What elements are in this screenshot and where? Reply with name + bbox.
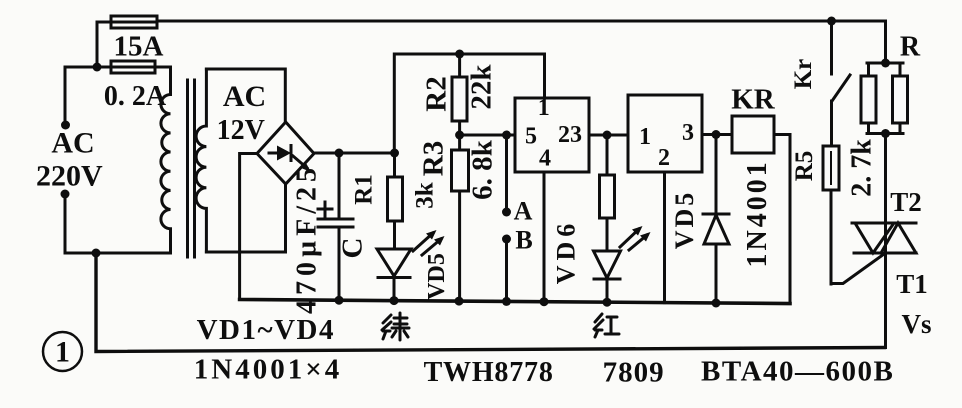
node junction to bottom rail <box>92 249 101 258</box>
svg-text:R3: R3 <box>418 141 450 176</box>
svg-text:12V: 12V <box>217 115 265 146</box>
fuse F2 0.2A <box>111 61 155 73</box>
svg-text:AC: AC <box>51 127 94 160</box>
wire DC+ up to control row <box>394 54 544 153</box>
resistor R parallel pair <box>861 63 908 134</box>
node junction fuses <box>93 63 102 72</box>
node VD6 bottom <box>603 298 612 307</box>
svg-text:BTA40—600B: BTA40—600B <box>701 355 894 387</box>
wire pin5 of U1 <box>460 134 515 137</box>
node C bottom <box>335 296 344 305</box>
LED VD6 arrows <box>620 226 651 250</box>
LED VD5 arrows <box>413 230 445 255</box>
svg-text:R: R <box>900 32 921 63</box>
svg-text:1N4001×4: 1N4001×4 <box>194 353 342 385</box>
svg-text:VD6: VD6 <box>552 219 581 285</box>
node VD5 diode bottom <box>712 299 721 308</box>
triac BTA40 <box>852 134 916 348</box>
svg-text:Kr: Kr <box>790 59 817 90</box>
wire pin2 of U2 <box>663 172 666 303</box>
chinese char red (hong) drawn strokes <box>594 314 619 337</box>
IC U2 7809 box <box>628 95 702 172</box>
wire bridge left vertex drop <box>240 154 257 300</box>
svg-text:7809: 7809 <box>603 356 665 388</box>
wire secondary top edge <box>206 69 285 122</box>
svg-text:KR: KR <box>731 84 776 116</box>
svg-text:R2: R2 <box>421 76 453 111</box>
svg-text:Vs: Vs <box>901 309 931 339</box>
svg-text:4: 4 <box>539 145 551 171</box>
wire relay right to ground rail <box>774 135 790 304</box>
LED VD6 red <box>594 251 621 302</box>
fuse F1 15A <box>111 16 157 28</box>
resistor R3 <box>452 136 469 301</box>
svg-text:1: 1 <box>538 95 550 121</box>
wire secondary bottom edge <box>206 251 285 254</box>
node R2 top <box>455 50 464 59</box>
svg-text:VD5: VD5 <box>424 253 450 300</box>
relay coil KR <box>732 116 774 153</box>
node pin4 bottom <box>540 297 549 306</box>
resistor R1 <box>388 153 403 249</box>
svg-text:C: C <box>337 238 369 259</box>
resistor R5 <box>823 146 839 284</box>
node VD6 top <box>603 131 612 140</box>
node C top <box>335 149 344 158</box>
node A <box>502 208 511 217</box>
node R1 top <box>390 149 399 158</box>
svg-text:22k: 22k <box>466 64 498 110</box>
svg-text:T2: T2 <box>890 187 922 217</box>
node R bottom <box>881 129 890 138</box>
wire triac gate <box>831 254 884 284</box>
resistor for VD6 <box>600 135 615 251</box>
svg-text:15A: 15A <box>114 31 164 63</box>
node A/B branch <box>502 131 511 140</box>
resistor R2 <box>452 54 467 136</box>
wire ground rail <box>240 300 790 304</box>
wire 0.2A left lead to AC terminal <box>65 67 111 125</box>
wire 15A left lead <box>97 22 111 67</box>
wire probe B <box>505 239 508 301</box>
wire pin3 of U2 to relay <box>702 133 732 136</box>
wire top rail <box>157 21 886 63</box>
node R top <box>881 59 890 68</box>
node Kr branch <box>827 17 836 26</box>
wire pin2/3 of U1 to U2 <box>589 134 628 137</box>
IC U1 TWH8778 box <box>515 98 589 172</box>
svg-text:VD5: VD5 <box>670 190 699 250</box>
svg-text:1N4001: 1N4001 <box>742 159 773 267</box>
LED VD5 green <box>377 249 411 301</box>
svg-text:3k: 3k <box>412 182 439 209</box>
node VD5 green bottom <box>390 296 399 305</box>
svg-text:5: 5 <box>525 124 537 150</box>
wire DC+ rail <box>314 152 395 155</box>
capacitor C 470uF <box>318 153 353 300</box>
wire probe A <box>505 135 508 212</box>
svg-text:6. 8k: 6. 8k <box>467 139 499 200</box>
svg-text:B: B <box>515 226 532 255</box>
svg-text:1: 1 <box>639 124 651 150</box>
wire 0.2A right lead <box>155 66 171 69</box>
wire AC bottom lead <box>65 194 170 253</box>
node R3 bottom <box>455 297 464 306</box>
svg-text:T1: T1 <box>896 269 928 299</box>
node AC terminal top <box>61 121 70 130</box>
transformer secondary winding <box>196 69 206 252</box>
svg-text:23: 23 <box>558 122 582 148</box>
svg-text:R5: R5 <box>791 151 818 182</box>
svg-text:2: 2 <box>658 145 670 171</box>
svg-text:TWH8778: TWH8778 <box>424 357 554 388</box>
diode VD5 1N4001 <box>703 135 729 304</box>
node VD5 diode top <box>712 130 721 139</box>
svg-text:VD1~VD4: VD1~VD4 <box>197 314 335 346</box>
svg-text:R1: R1 <box>351 174 378 205</box>
svg-text:220V: 220V <box>36 160 103 193</box>
svg-text:3: 3 <box>682 120 694 146</box>
wire pin4 of U1 <box>543 172 546 302</box>
svg-text:1: 1 <box>55 336 70 369</box>
bridge inner diode symbol <box>269 146 311 173</box>
transformer core <box>188 80 195 257</box>
bridge rectifier VD1-VD4 diamond <box>257 122 314 184</box>
svg-text:AC: AC <box>223 80 266 113</box>
chinese char green (lv) drawn strokes <box>382 313 409 340</box>
circled figure number 1 <box>43 332 82 371</box>
svg-text:A: A <box>514 197 533 226</box>
node R2/R3 junction <box>455 131 464 140</box>
wire bridge bottom vertex drop <box>284 184 287 252</box>
switch Kr <box>832 21 851 146</box>
svg-text:0. 2A: 0. 2A <box>104 81 167 112</box>
svg-text:470µF/25: 470µF/25 <box>292 163 323 314</box>
node AC terminal bottom <box>61 190 70 199</box>
transformer T primary winding <box>161 67 171 253</box>
svg-text:2. 7k: 2. 7k <box>847 139 878 197</box>
wire bottom AC rail <box>96 253 885 352</box>
node B <box>502 235 511 244</box>
node B bottom <box>502 297 511 306</box>
